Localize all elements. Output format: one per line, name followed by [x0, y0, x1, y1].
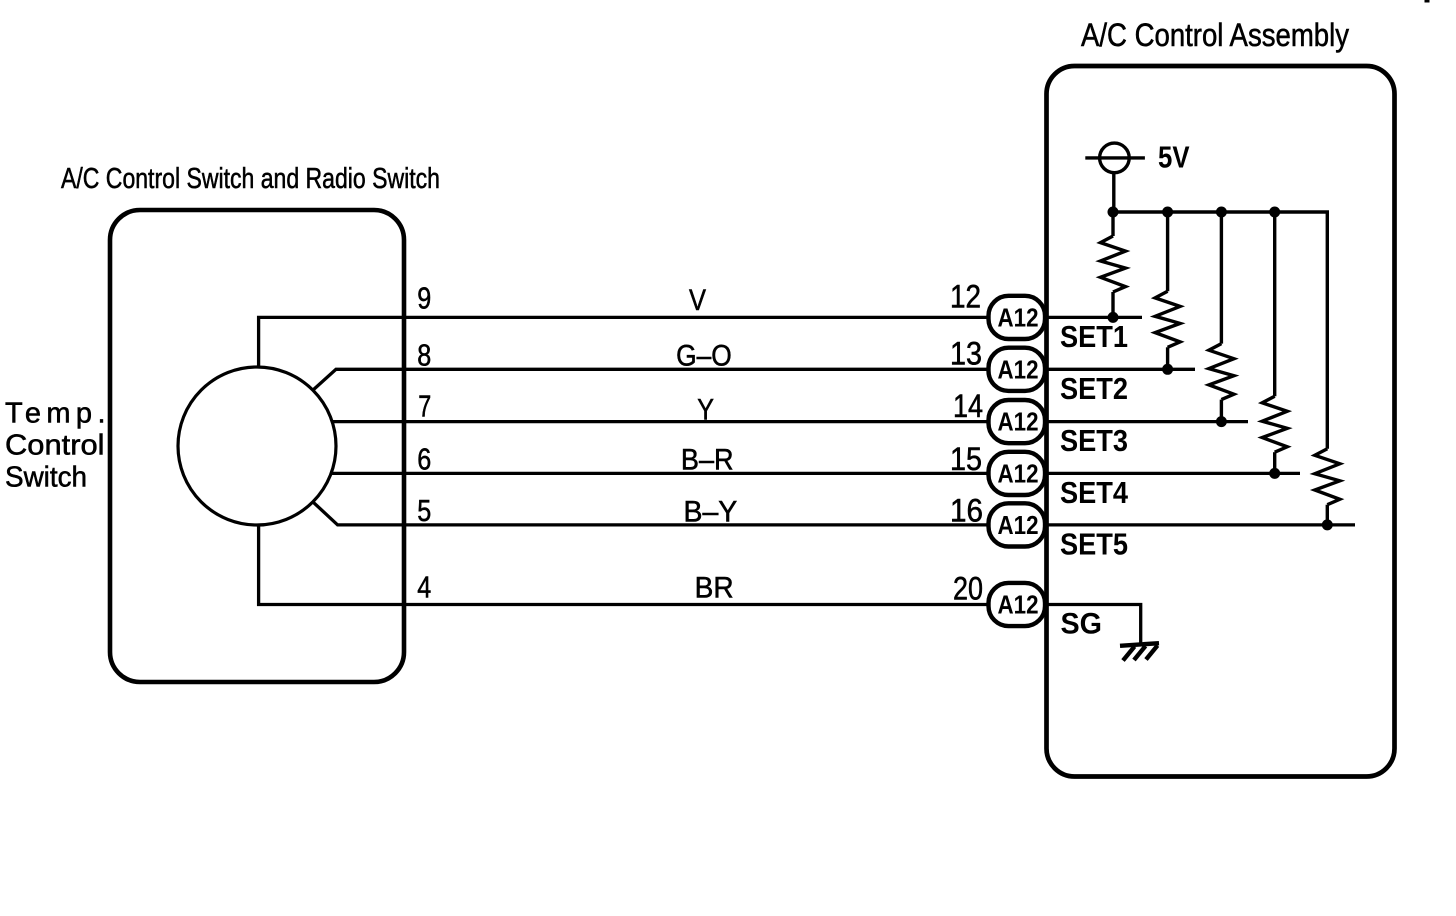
svg-text:SET1: SET1 — [1060, 320, 1128, 354]
wire SET4 — [1046, 472, 1300, 475]
connector A12 pin 13 — [989, 348, 1046, 391]
svg-text:BR: BR — [695, 572, 734, 605]
wire SET5 — [1046, 523, 1355, 526]
svg-text:SET4: SET4 — [1060, 476, 1128, 510]
wire pin7 Y — [332, 420, 988, 423]
svg-text:13: 13 — [950, 335, 982, 371]
wire from 5V to rail — [1112, 173, 1115, 214]
junction dot R2/SET2 — [1162, 364, 1173, 375]
svg-text:B–Y: B–Y — [684, 496, 738, 529]
scan speck top right — [1425, 0, 1430, 3]
svg-text:9: 9 — [417, 280, 431, 315]
svg-text:7: 7 — [418, 388, 431, 423]
svg-text:A12: A12 — [998, 354, 1039, 384]
junction dot R3/SET3 — [1216, 416, 1227, 427]
svg-text:G–O: G–O — [676, 340, 732, 373]
svg-text:V: V — [689, 284, 706, 317]
junction dot R4/SET4 — [1269, 468, 1280, 479]
connector A12 pin 12 — [989, 296, 1046, 339]
temp control switch rotary contact circle — [178, 367, 336, 525]
resistor R2 (SET2 pull-up) — [1155, 212, 1180, 369]
connector A12 pin 14 — [989, 400, 1046, 443]
wire pin4 BR — [259, 525, 988, 605]
svg-text:A/C Control Switch and Radio S: A/C Control Switch and Radio Switch — [61, 163, 440, 195]
junction dot R5/SET5 — [1322, 519, 1333, 530]
junction dot R1/SET1 — [1108, 312, 1119, 323]
svg-text:4: 4 — [417, 569, 431, 604]
svg-text:A12: A12 — [998, 510, 1039, 540]
junction dot rail R2 — [1162, 207, 1173, 218]
resistor R5 (SET5 pull-up) — [1315, 449, 1340, 525]
svg-text:A/C Control Assembly: A/C Control Assembly — [1081, 17, 1349, 53]
svg-text:14: 14 — [953, 388, 983, 424]
ground symbol — [1120, 643, 1159, 660]
box: A/C Control Assembly — [1047, 66, 1395, 777]
wire SET2 — [1046, 368, 1195, 371]
svg-text:A12: A12 — [998, 407, 1039, 437]
connector A12 pin 20 — [989, 583, 1046, 626]
svg-text:A12: A12 — [998, 302, 1039, 332]
svg-text:5V: 5V — [1158, 140, 1190, 175]
junction dot rail R3 — [1216, 207, 1227, 218]
resistor R3 (SET3 pull-up) — [1209, 212, 1234, 422]
junction dot rail R4 — [1269, 207, 1280, 218]
svg-text:20: 20 — [953, 570, 983, 606]
label: Temp. Control Switch — [5, 398, 106, 494]
resistor R1 (SET1 pull-up) — [1101, 212, 1126, 317]
svg-text:8: 8 — [417, 337, 431, 372]
svg-text:SET5: SET5 — [1060, 527, 1128, 561]
connector A12 pin 16 — [989, 503, 1046, 546]
svg-text:6: 6 — [417, 441, 431, 476]
wire SET3 — [1046, 420, 1248, 423]
wire pin5 B-Y — [313, 502, 988, 525]
5V power supply symbol — [1085, 143, 1145, 173]
svg-text:Y: Y — [697, 393, 714, 426]
wire pin8 G-O — [313, 369, 988, 390]
svg-text:15: 15 — [950, 441, 982, 477]
resistor R4 (SET4 pull-up) — [1262, 212, 1287, 473]
svg-text:A12: A12 — [998, 590, 1039, 620]
box: A/C Control Switch (left component) — [110, 210, 404, 682]
svg-text:SG: SG — [1061, 608, 1103, 641]
svg-text:12: 12 — [950, 279, 981, 315]
connector A12 pin 15 — [989, 452, 1046, 495]
svg-text:Switch: Switch — [5, 462, 87, 494]
wire SET1 — [1046, 316, 1142, 319]
5V distribution rail — [1113, 212, 1327, 449]
svg-text:Control: Control — [5, 430, 104, 462]
wire pin9 V — [259, 317, 988, 367]
svg-text:5: 5 — [417, 493, 431, 528]
svg-text:SET2: SET2 — [1060, 372, 1128, 406]
svg-text:16: 16 — [950, 492, 983, 528]
svg-text:A12: A12 — [998, 458, 1039, 488]
wire pin6 B-R — [331, 472, 988, 475]
junction dot rail R1 — [1108, 207, 1119, 218]
svg-text:SET3: SET3 — [1060, 424, 1128, 458]
wire SG to ground — [1046, 605, 1141, 644]
svg-text:B–R: B–R — [681, 444, 734, 477]
